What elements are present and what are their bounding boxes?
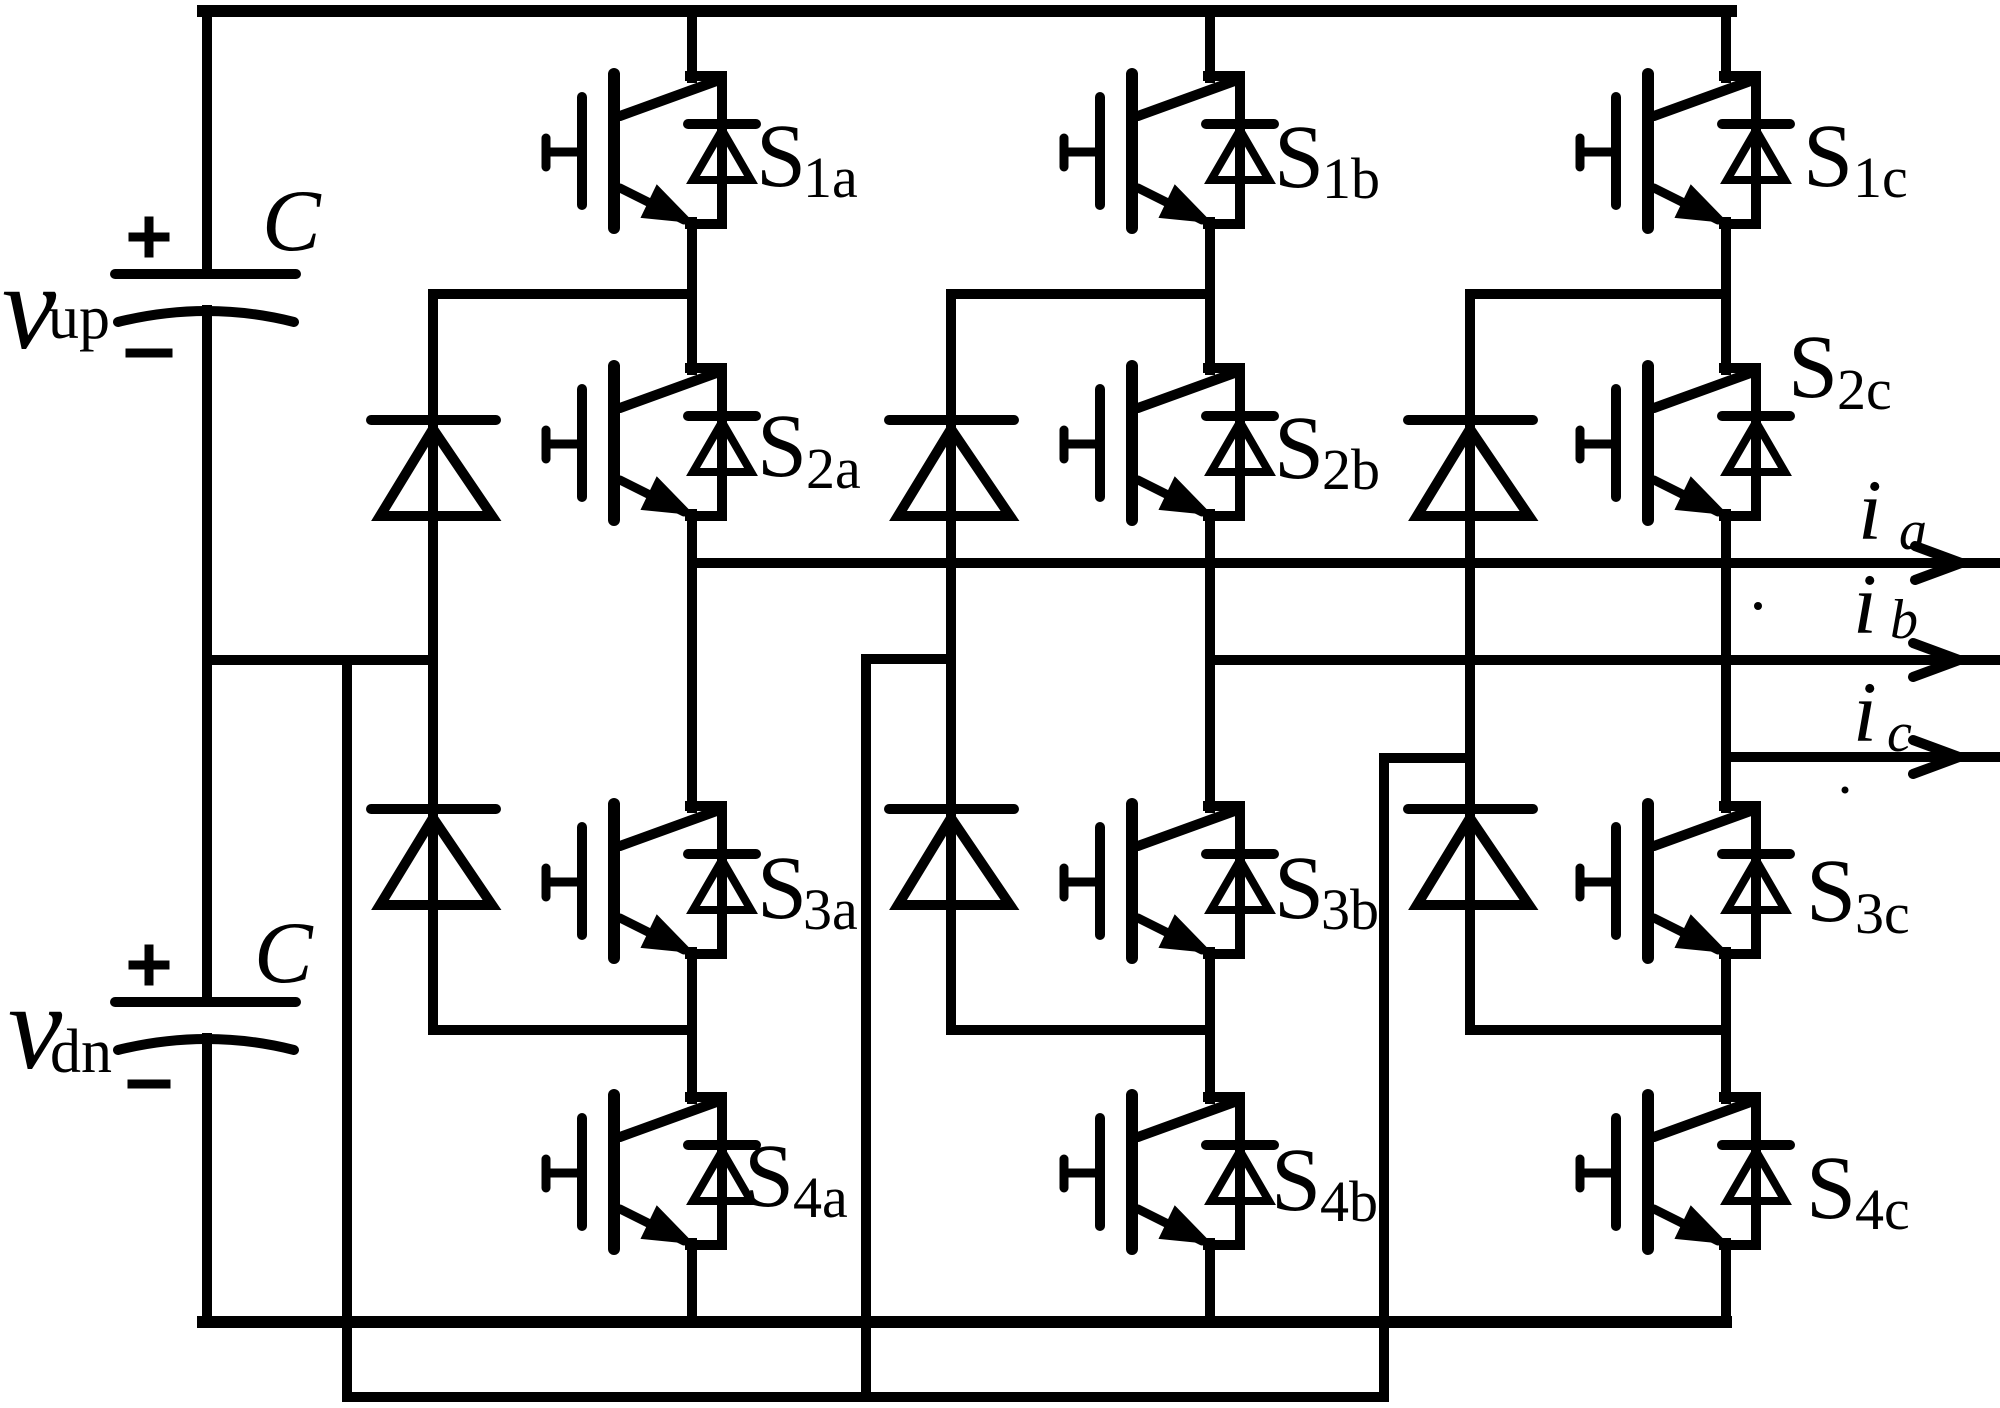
svg-text:i: i <box>1853 556 1877 652</box>
wire top DC+ rail <box>203 5 1731 17</box>
svg-text:2c: 2c <box>1837 357 1892 422</box>
svg-text:S: S <box>1806 842 1856 941</box>
svg-text:1b: 1b <box>1322 146 1380 211</box>
svg-text:3a: 3a <box>803 877 858 942</box>
wire phase-b leg S1b to S2b <box>1205 222 1215 370</box>
wire node S3a-S4a to clamp column <box>433 1025 692 1035</box>
svg-text:1a: 1a <box>803 145 858 210</box>
svg-text:S: S <box>1803 107 1853 206</box>
svg-text:S: S <box>1274 399 1324 498</box>
svg-text:S: S <box>757 397 807 496</box>
transistor S2c (IGBT with antiparallel diode) <box>1580 366 1790 520</box>
wire output i_b <box>1210 655 1998 665</box>
svg-text:dn: dn <box>50 1018 112 1086</box>
transistor S1b (IGBT with antiparallel diode) <box>1064 74 1274 228</box>
wire phase-c leg S1c to S2c <box>1721 222 1731 370</box>
svg-text:a: a <box>1899 500 1927 562</box>
wire phase-a leg S1a to S2a <box>687 222 697 370</box>
transistor S4a (IGBT with antiparallel diode) <box>546 1095 756 1249</box>
wire left DC-link vertical (top section) <box>202 11 212 274</box>
wire node S1b-S2b to clamp column <box>951 289 1210 299</box>
svg-text:C: C <box>262 173 322 270</box>
wire bottom DC- rail <box>203 1316 1726 1328</box>
svg-text:4c: 4c <box>1855 1177 1910 1242</box>
transistor S4c (IGBT with antiparallel diode) <box>1580 1095 1790 1249</box>
wire phase-c neutral tap vertical <box>1379 758 1389 1397</box>
wire phase-b leg S2b to S3b (through output node) <box>1205 514 1215 808</box>
wire clamp diode column phase b <box>946 294 956 1030</box>
svg-text:S: S <box>1271 1131 1321 1230</box>
wire phase-c leg from top rail to S1c <box>1721 11 1731 78</box>
wire phase-c leg S3c to S4c <box>1721 952 1731 1099</box>
svg-text:S: S <box>1806 1139 1856 1238</box>
transistor S1c (IGBT with antiparallel diode) <box>1580 74 1790 228</box>
transistor S4b (IGBT with antiparallel diode) <box>1064 1095 1274 1249</box>
wire node S3b-S4b to clamp column <box>951 1025 1210 1035</box>
wire node S1c-S2c to clamp column <box>1470 289 1726 299</box>
wire phase-a leg S4a to bottom rail <box>687 1243 697 1322</box>
wire phase-c neutral tap horizontal <box>1384 753 1470 763</box>
diode D1b (upper clamp) <box>889 420 1014 516</box>
svg-text:up: up <box>48 284 110 352</box>
wire clamp diode column phase a <box>428 294 438 1030</box>
diode D2c (lower clamp) <box>1408 809 1533 905</box>
capacitor C upper (plates) <box>115 274 296 322</box>
svg-text:b: b <box>1890 589 1918 651</box>
node dot artifact near i_c <box>1842 787 1849 794</box>
wire phase-b leg from top rail to S1b <box>1205 11 1215 78</box>
transistor S2a (IGBT with antiparallel diode) <box>546 366 756 520</box>
wire phase-a leg S3a to S4a <box>687 952 697 1099</box>
label + of lower capacitor <box>145 949 154 981</box>
svg-text:C: C <box>254 905 314 1002</box>
svg-text:S: S <box>744 1127 794 1226</box>
wire clamp diode column phase c <box>1465 294 1475 1030</box>
diode D1c (upper clamp) <box>1408 420 1533 516</box>
transistor S3a (IGBT with antiparallel diode) <box>546 804 756 958</box>
svg-text:i: i <box>1853 664 1877 760</box>
wire phase-a leg from top rail to S1a <box>687 11 697 78</box>
wire neutral from capacitor midpoint to phase-a clamp column <box>207 655 433 665</box>
svg-text:3b: 3b <box>1321 877 1379 942</box>
wire left DC-link vertical (bottom section) <box>202 1038 212 1322</box>
svg-text:1c: 1c <box>1853 145 1908 210</box>
diode D2b (lower clamp) <box>889 809 1014 905</box>
diode D2a (lower clamp) <box>371 809 496 905</box>
wire phase-b neutral tap horizontal <box>866 654 951 664</box>
svg-text:c: c <box>1887 702 1912 764</box>
label - of upper capacitor <box>130 349 168 358</box>
svg-text:2a: 2a <box>806 436 861 501</box>
label + of upper capacitor <box>145 221 154 253</box>
capacitor C lower (plates) <box>115 1002 296 1050</box>
wire neutral drop x=347 <box>342 660 352 1397</box>
wire output i_c <box>1726 752 1998 762</box>
wire phase-a leg S2a to S3a (through output node) <box>687 514 697 808</box>
arrow i_b <box>1913 643 1959 677</box>
transistor S3c (IGBT with antiparallel diode) <box>1580 804 1790 958</box>
svg-text:3c: 3c <box>1855 881 1910 946</box>
svg-text:2b: 2b <box>1322 437 1380 502</box>
svg-text:4a: 4a <box>793 1165 848 1230</box>
svg-text:4b: 4b <box>1320 1169 1378 1234</box>
arrow i_a <box>1915 546 1961 580</box>
arrow i_c <box>1913 740 1959 774</box>
wire phase-c leg S4c to bottom rail <box>1721 1243 1731 1322</box>
transistor S3b (IGBT with antiparallel diode) <box>1064 804 1274 958</box>
wire node S3c-S4c to clamp column <box>1470 1025 1726 1035</box>
svg-text:S: S <box>757 839 807 938</box>
wire phase-c leg S2c to S3c (through output node) <box>1721 514 1731 808</box>
svg-text:S: S <box>756 107 806 206</box>
wire node S1a-S2a to clamp column <box>433 289 692 299</box>
wire phase-b leg S3b to S4b <box>1205 952 1215 1099</box>
svg-text:i: i <box>1858 462 1882 558</box>
transistor S1a (IGBT with antiparallel diode) <box>546 74 756 228</box>
label - of lower capacitor <box>132 1080 166 1089</box>
svg-text:S: S <box>1274 108 1324 207</box>
diode D1a (upper clamp) <box>371 420 496 516</box>
wire phase-b leg S4b to bottom rail <box>1205 1243 1215 1322</box>
wire phase-b neutral tap vertical <box>861 659 871 1397</box>
svg-text:S: S <box>1274 839 1324 938</box>
svg-text:S: S <box>1788 318 1838 417</box>
node dot artifact near i_b <box>1754 602 1762 610</box>
wire lower neutral bus <box>347 1392 1384 1402</box>
wire left DC-link vertical (middle section) <box>202 310 212 1002</box>
wire output i_a <box>692 558 1998 568</box>
transistor S2b (IGBT with antiparallel diode) <box>1064 366 1274 520</box>
